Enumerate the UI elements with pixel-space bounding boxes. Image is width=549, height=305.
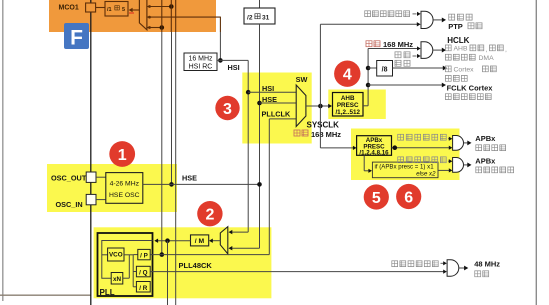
divider /2 to 31 xyxy=(244,8,275,24)
wire MCO mux input PLL stub xyxy=(147,27,162,29)
svg-text:if (APBx presc = 1) x1: if (APBx presc = 1) x1 xyxy=(375,164,435,171)
svg-text:/1,2..512: /1,2..512 xyxy=(335,109,360,116)
block timer clock multiplier if APBx presc xyxy=(372,162,438,178)
junction /M output branch xyxy=(165,238,170,243)
svg-text:HSI: HSI xyxy=(262,84,274,93)
wire HSE output xyxy=(143,183,260,185)
junction HSI to SW mux xyxy=(246,90,251,95)
wire HSI RC output xyxy=(217,59,248,61)
svg-text:else x2: else x2 xyxy=(416,171,436,178)
gate APBx peripheral clock enable xyxy=(453,136,464,151)
gate APBx timer clock enable xyxy=(453,158,464,173)
label peripheral clock enable (APBx timers) xyxy=(398,157,404,163)
svg-text:APBx: APBx xyxy=(475,157,496,166)
red annotation mark xyxy=(129,12,134,14)
junction FCLK branch xyxy=(366,83,371,88)
junction SYSCLK xyxy=(318,104,323,109)
svg-text:31: 31 xyxy=(262,15,270,22)
block VCO xyxy=(108,248,124,261)
pin OSC_OUT xyxy=(86,172,96,182)
label peripheral clock enable (PTP) xyxy=(365,11,371,17)
svg-text:168 MHz: 168 MHz xyxy=(383,40,413,49)
marker circle 4 xyxy=(334,60,360,86)
wire HSE vertical (orange part) xyxy=(170,0,172,32)
svg-text:PLLCLK: PLLCLK xyxy=(262,110,292,119)
svg-text:PRESC: PRESC xyxy=(337,102,359,109)
svg-text:/ M: / M xyxy=(195,238,205,245)
svg-text:DMA: DMA xyxy=(479,55,495,62)
svg-text:/8: /8 xyxy=(382,66,388,73)
label max 168 MHz (SYSCLK) xyxy=(294,130,300,136)
wire PLLCLK from /P xyxy=(150,254,269,256)
svg-text:/2: /2 xyxy=(247,15,253,22)
svg-text:6: 6 xyxy=(404,190,413,207)
wire through vertical (orange part) xyxy=(175,0,177,32)
wire HSE to SW mux xyxy=(260,102,297,104)
wire HCLK gate output xyxy=(433,49,442,51)
wire PLL48CK from /Q xyxy=(150,271,443,273)
wire MCO1 pin to divider xyxy=(96,7,105,9)
wire multiplier output to gate xyxy=(438,169,450,171)
mux MCO1 xyxy=(139,0,147,30)
svg-text:HCLK: HCLK xyxy=(447,36,469,45)
label peripheral clock enable (APBx) xyxy=(398,134,404,140)
svg-text:HSE OSC: HSE OSC xyxy=(109,192,140,199)
wire APBx gate output xyxy=(464,142,468,144)
gate PTP clock enable xyxy=(421,11,433,28)
junction MCO-HSE xyxy=(169,4,174,9)
chip boundary line xyxy=(90,0,92,305)
divider /R xyxy=(133,286,136,288)
wire MCO mux input HSE stub xyxy=(147,6,171,8)
wire SYSCLK riser to PTP gate xyxy=(319,24,321,106)
divider /P xyxy=(133,254,138,256)
svg-text:AHB: AHB xyxy=(341,95,355,102)
svg-text:/ R: / R xyxy=(139,285,147,292)
svg-text:OSC_IN: OSC_IN xyxy=(56,200,83,209)
svg-text:/ Q: / Q xyxy=(139,270,147,277)
wire PLL internal input xyxy=(102,241,153,279)
svg-text:16 MHz: 16 MHz xyxy=(188,56,213,63)
wire SYSCLK down to APBx xyxy=(319,106,321,148)
divider /8 Cortex systick xyxy=(377,61,393,77)
frame left border xyxy=(2,0,4,301)
gate 48 MHz clock enable xyxy=(447,260,459,276)
wire OSC_IN to HSE OSC xyxy=(96,199,106,201)
wire OSC_OUT to HSE OSC xyxy=(96,176,106,178)
divider /Q xyxy=(133,271,136,273)
svg-text:VCO: VCO xyxy=(109,252,123,259)
svg-text:OSC_OUT: OSC_OUT xyxy=(51,174,87,183)
marker circle 6 xyxy=(396,184,421,209)
wire FCLK Cortex xyxy=(368,84,442,86)
svg-text:4-26 MHz: 4-26 MHz xyxy=(110,180,140,187)
svg-text:HSI RC: HSI RC xyxy=(189,63,213,70)
svg-text:PLL48CK: PLL48CK xyxy=(179,261,213,270)
wire HSI riser xyxy=(247,60,249,232)
yellow highlight region PLL (2) xyxy=(94,227,272,298)
wire /M branch down xyxy=(167,241,169,305)
wire PLLCLK to SW mux xyxy=(269,118,296,120)
watermark F badge xyxy=(64,23,89,49)
wire RTC output up xyxy=(259,0,261,8)
svg-text:5: 5 xyxy=(122,7,125,13)
mux PLL input xyxy=(220,227,228,254)
yellow highlight region AHB prescaler (4) xyxy=(328,90,386,120)
svg-text:SW: SW xyxy=(296,75,308,84)
orange MCO block background xyxy=(49,0,216,32)
junction HSE to SW mux xyxy=(257,101,262,106)
junction HSE line end xyxy=(257,182,262,187)
wire pass-through vertical xyxy=(175,32,177,305)
wire /8 to Cortex timer xyxy=(393,67,444,69)
label to Cortex system timer xyxy=(445,66,451,72)
wire HSE riser xyxy=(259,24,261,248)
junction PLLCLK at PLL P output xyxy=(160,252,165,257)
svg-text:3: 3 xyxy=(223,101,232,118)
label peripheral clock enable (48 MHz) xyxy=(392,261,398,267)
svg-text:1: 1 xyxy=(118,147,127,164)
junction HSE vertical at HSE line xyxy=(169,182,174,187)
marker circle 5 xyxy=(364,184,389,209)
divider /1 to 5 (MCO1) xyxy=(105,2,128,17)
svg-text:Cortex: Cortex xyxy=(454,67,475,74)
label Ethernet PTP clock xyxy=(449,14,455,20)
svg-text:FCLK Cortex: FCLK Cortex xyxy=(447,83,494,92)
svg-text:HSE: HSE xyxy=(262,95,277,104)
svg-text:168 MHz: 168 MHz xyxy=(311,130,341,139)
yellow highlight region SYSCLK mux (3) xyxy=(242,73,311,144)
svg-text:,: , xyxy=(505,47,507,54)
oscillator HSE OSC 4-26 MHz xyxy=(106,173,143,204)
svg-text:4: 4 xyxy=(343,67,352,84)
svg-text:xN: xN xyxy=(113,276,122,283)
wire HCLK to gate xyxy=(368,48,418,50)
svg-text:HSI: HSI xyxy=(228,63,240,72)
wire MCO mux input HSI stub xyxy=(147,16,221,18)
svg-text:APBx: APBx xyxy=(475,134,496,143)
junction /8 branch xyxy=(366,66,371,71)
wire PLLCLK vertical to MCO mux xyxy=(161,32,163,255)
pin MCO1 xyxy=(86,3,96,12)
frame bottom border segment xyxy=(0,294,91,296)
marker circle 2 xyxy=(197,201,222,226)
label free running clock xyxy=(445,94,451,100)
svg-text:PTP: PTP xyxy=(448,22,463,31)
svg-text:MCO1: MCO1 xyxy=(59,4,79,11)
svg-text:F: F xyxy=(70,27,83,50)
wire HSI branch to MCO mux xyxy=(219,32,221,60)
wire SYSCLK output xyxy=(306,105,331,107)
wire PTP gate output xyxy=(433,19,442,21)
wire PLLCLK riser xyxy=(268,119,270,255)
marker circle 1 xyxy=(109,141,135,167)
label clock enable (HCLK) xyxy=(395,52,401,58)
wire HSE vertical to MCO mux xyxy=(171,32,173,184)
svg-text:/ P: / P xyxy=(140,253,148,260)
wire branch to timer multiplier xyxy=(363,155,365,171)
svg-text:SYSCLK: SYSCLK xyxy=(307,121,340,130)
junction HSI branch at HSI RC output xyxy=(218,58,223,63)
wire /M to PLL xyxy=(158,240,191,242)
wire VCO output bus xyxy=(124,254,133,256)
junction APBx output xyxy=(393,145,398,150)
wire PLL vertical (orange part) xyxy=(161,0,163,32)
svg-text:5: 5 xyxy=(372,190,381,207)
wire HSE to PLL mux xyxy=(231,247,259,249)
wire HSI branch (orange part) xyxy=(219,17,221,32)
wire HSI to PLL mux xyxy=(231,231,248,233)
block PLL xyxy=(98,233,153,296)
wire MCO mux output to divider xyxy=(132,9,139,11)
svg-text:HSE: HSE xyxy=(182,173,197,182)
wire 48 MHz gate output xyxy=(459,267,465,269)
svg-text:/1: /1 xyxy=(107,7,112,13)
svg-text:,: , xyxy=(486,47,488,54)
svg-text:48 MHz: 48 MHz xyxy=(474,260,500,269)
yellow highlight region APBx prescalers (5,6) xyxy=(351,129,460,181)
prescaler APBx PRESC xyxy=(357,136,392,156)
wire AHB output riser xyxy=(363,105,368,107)
oscillator HSI RC 16 MHz xyxy=(184,53,217,71)
frame right border xyxy=(535,0,537,305)
wire APBx output to gate xyxy=(392,147,451,149)
wire APBx timer gate output xyxy=(464,164,468,166)
block xN xyxy=(111,273,123,285)
svg-text:PLL: PLL xyxy=(100,288,115,297)
label max 168 MHz (HCLK) xyxy=(366,41,372,47)
svg-text:2: 2 xyxy=(205,207,214,224)
wire xN feedback xyxy=(123,277,130,279)
wire to /8 divider xyxy=(368,67,377,69)
divider /M xyxy=(191,235,209,246)
mux SW system clock xyxy=(296,85,306,127)
wire HSI to SW mux xyxy=(248,91,296,93)
label to AHB bus, core, memory and DMA xyxy=(445,45,451,51)
svg-text:AHB: AHB xyxy=(454,46,468,53)
gate HCLK clock enable xyxy=(421,42,433,59)
prescaler AHB PRESC xyxy=(333,93,364,117)
yellow highlight region HSE OSC (1) xyxy=(47,164,177,212)
wire PLL mux output to /M xyxy=(212,240,220,242)
pin OSC_IN xyxy=(86,194,96,204)
marker circle 3 xyxy=(215,96,239,120)
junction MCO-PLL xyxy=(160,25,165,30)
